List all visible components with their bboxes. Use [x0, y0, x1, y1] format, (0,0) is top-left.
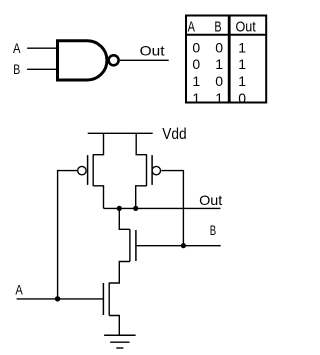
svg-text:A: A	[188, 19, 195, 36]
svg-text:Vdd: Vdd	[162, 126, 186, 143]
svg-text:1: 1	[215, 90, 223, 106]
svg-text:A: A	[15, 281, 23, 297]
svg-text:B: B	[214, 19, 221, 36]
svg-text:1: 1	[238, 73, 246, 89]
svg-text:Out: Out	[199, 192, 222, 208]
svg-text:0: 0	[215, 73, 223, 89]
svg-text:1: 1	[192, 73, 200, 89]
svg-text:0: 0	[192, 40, 200, 56]
svg-text:Out: Out	[236, 19, 257, 36]
svg-text:A: A	[13, 40, 21, 56]
svg-text:1: 1	[238, 40, 246, 56]
svg-text:1: 1	[215, 56, 223, 72]
svg-text:0: 0	[215, 40, 223, 56]
svg-text:1: 1	[238, 56, 246, 72]
svg-text:0: 0	[238, 90, 246, 106]
svg-text:0: 0	[192, 56, 200, 72]
svg-text:1: 1	[192, 90, 200, 106]
svg-text:B: B	[13, 61, 20, 77]
svg-text:Out: Out	[140, 43, 165, 59]
svg-text:B: B	[210, 222, 216, 238]
